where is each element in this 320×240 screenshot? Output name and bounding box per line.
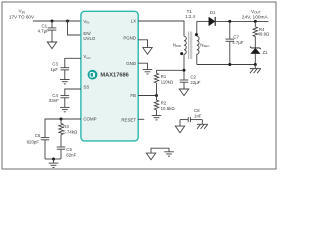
node junction primary-C2 [183,69,186,72]
svg-text:1nF: 1nF [194,113,202,118]
ground (bars) comp network [49,159,59,168]
capacitor C1 [38,21,57,42]
svg-text:17V TO 60V: 17V TO 60V [9,14,35,19]
svg-text:C5: C5 [66,147,72,152]
svg-text:NPRI: NPRI [173,42,181,48]
wire PGND net [138,40,148,48]
svg-text:GND: GND [126,61,136,66]
svg-text:VIN: VIN [83,19,89,25]
svg-text:1:2.4: 1:2.4 [185,14,195,19]
ground (bars) C4 [60,107,70,111]
ground (triangle) PGND [143,48,152,55]
transformer core [189,32,192,60]
ground (bars) R2 [152,116,162,120]
svg-text:UVLO: UVLO [83,36,96,41]
svg-text:LX: LX [131,19,136,24]
svg-text:COMP: COMP [83,117,96,122]
svg-text:1µF: 1µF [50,67,58,72]
wire RESET stub [138,118,144,120]
node junction COMP-R3 [60,118,63,121]
capacitor C8 [180,108,202,126]
resistor R3 [59,119,78,147]
wire VIN rail [33,20,81,22]
ground (bars) C3 [60,80,70,84]
svg-text:33nF: 33nF [49,98,59,103]
wire FB net [138,95,157,97]
svg-text:FB: FB [130,93,136,98]
svg-text:R1: R1 [161,74,167,79]
svg-text:SS: SS [83,84,89,89]
node VIN label [9,9,35,20]
zener Z1 [250,47,268,65]
node junction return-C7 [228,63,231,66]
svg-text:4.7µF: 4.7µF [232,40,244,45]
svg-text:C2: C2 [190,75,196,80]
svg-text:D1: D1 [210,10,216,15]
wire secondary return rail [197,64,256,66]
ground (triangle) tie left [146,153,155,160]
wire LX net [138,21,184,36]
svg-text:PGND: PGND [123,36,136,41]
capacitor C4 [49,89,81,107]
wire comp bottom rail [45,158,61,160]
wire COMP net [45,119,81,137]
border frame [2,2,276,169]
wire GND net [138,63,148,69]
svg-text:4.7µF: 4.7µF [38,29,50,34]
resistor R1 [154,70,173,95]
svg-text:R2: R2 [161,100,167,105]
wire VOUT rail [215,20,268,22]
svg-text:EN/: EN/ [83,31,91,36]
node junction VIN-C1 [51,20,54,23]
svg-text:82nF: 82nF [66,153,76,158]
wire EN branch [68,21,82,35]
capacitor C6 [27,133,50,159]
op-amp U1 MAX17686 IC body [81,11,138,141]
ground (bars) tie right [164,152,174,156]
node junction VOUT-C7 [228,20,231,23]
capacitor C2 [180,70,201,89]
svg-text:820pF: 820pF [27,139,40,144]
ground (triangle) C8 left [175,126,184,133]
wire secondary top net [197,20,209,22]
svg-text:49.9Ω: 49.9Ω [258,32,271,37]
node VOUT label [242,9,269,20]
ground (chassis) output [250,65,261,74]
logo maxim [88,70,98,80]
transformer T1 primary winding [184,36,186,70]
svg-text:10.5kΩ: 10.5kΩ [161,106,176,111]
node junction comp-gnd [52,158,55,161]
wire ground tie bracket [151,148,169,153]
svg-text:RESET: RESET [121,118,136,123]
capacitor C5 [57,147,77,159]
ground (chassis) C8 right [197,124,208,129]
node junction FB divider [155,94,158,97]
svg-text:MAX17686: MAX17686 [100,73,128,79]
svg-text:24V, 100mA: 24V, 100mA [242,14,269,20]
svg-text:R3: R3 [63,124,69,129]
svg-text:VOUT: VOUT [251,9,261,15]
capacitor C3 [50,58,81,79]
transformer T1 secondary winding [197,21,199,64]
diode D1 [209,10,216,26]
node polarity dot primary [180,52,183,55]
svg-text:5.74kΩ: 5.74kΩ [63,129,78,134]
resistor R4 [253,21,270,47]
svg-text:NSEC: NSEC [200,42,210,48]
node junction VIN-EN [66,20,69,23]
node polarity dot secondary [195,33,198,36]
wire primary bottom rail [157,69,185,71]
svg-text:C6: C6 [35,133,41,138]
ground (triangle) C2 [179,89,188,96]
svg-text:Z1: Z1 [263,50,269,55]
svg-text:110kΩ: 110kΩ [161,80,174,85]
node junction return-Z1 [254,63,257,66]
capacitor C7 [226,21,244,64]
svg-text:VCC: VCC [83,54,91,60]
node junction VOUT-R4 [254,20,257,23]
svg-text:22µF: 22µF [190,80,200,85]
resistor R2 [154,96,175,116]
ground (bars) GND [143,70,153,74]
ground (triangle) C1 [47,42,56,49]
